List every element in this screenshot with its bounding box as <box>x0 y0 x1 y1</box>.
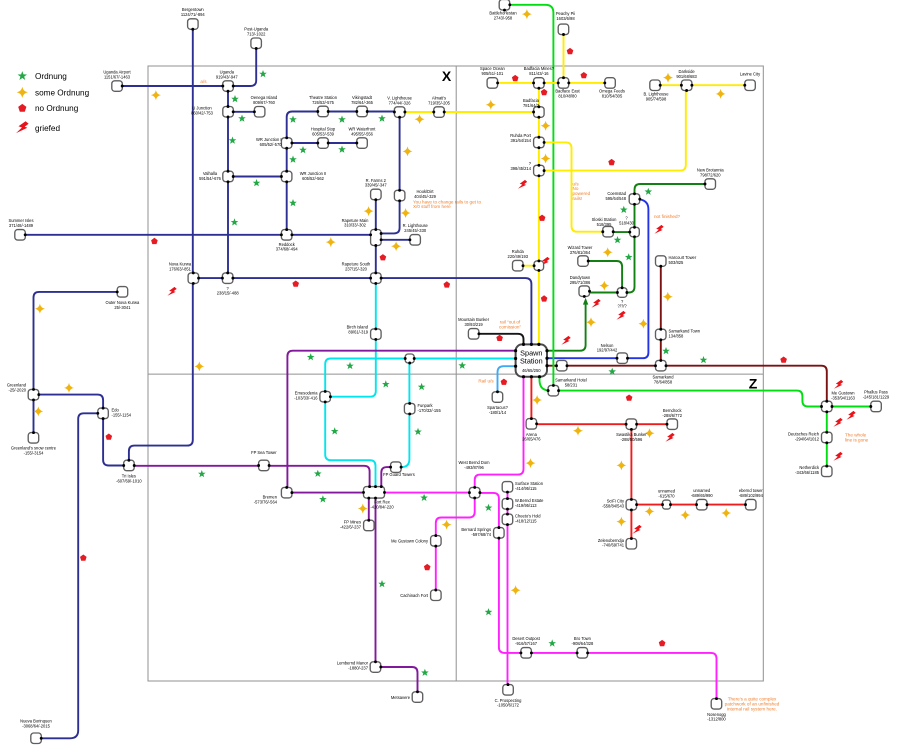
station WR Junction I <box>281 138 292 149</box>
svg-text:1603/6/98: 1603/6/98 <box>556 16 575 21</box>
station Samarkand Hotel <box>557 360 568 371</box>
marker: green star 23 <box>420 494 428 501</box>
svg-text:26/65/476: 26/65/476 <box>522 437 541 442</box>
station Bernard Springs <box>494 528 505 539</box>
svg-text:295/71/386: 295/71/386 <box>570 280 591 285</box>
svg-text:398/45/214: 398/45/214 <box>511 166 532 171</box>
wire: navy Bergentown-NovaKurwa-TriIsles line <box>129 30 193 461</box>
station Valhalla <box>223 171 234 182</box>
marker: yellow sparkle 12 <box>358 504 368 514</box>
marker: yellow sparkle 6 <box>326 237 336 247</box>
wire: purple FortRex-LemberndManor vertical <box>375 498 377 661</box>
svg-text:339/45/-347: 339/45/-347 <box>365 183 388 188</box>
station Darkside <box>681 80 692 91</box>
station yellowjct <box>534 261 544 271</box>
svg-text:-607/69/-1010: -607/69/-1010 <box>116 478 142 483</box>
station Greenland's snow centre <box>28 433 39 444</box>
marker: yellow sparkle 21 <box>586 317 596 327</box>
marker: red lightning 7 <box>561 336 570 345</box>
svg-text:919/43/-947: 919/43/-947 <box>216 74 239 79</box>
marker: green star 11 <box>253 179 261 186</box>
wire: darkgreen Spawn-Dandytown arrow line <box>547 303 586 351</box>
svg-text:901/68/683: 901/68/683 <box>676 74 697 79</box>
wire: darkgreen Sloski-518430 link <box>614 231 629 233</box>
svg-text:-103/33/-416: -103/33/-416 <box>294 396 318 401</box>
marker: green star 17 <box>382 380 390 387</box>
station Tri Isles <box>124 460 135 471</box>
svg-text:860/42/-753: 860/42/-753 <box>191 110 214 115</box>
station Deutsches Reich <box>822 432 833 443</box>
station Battlehorlestan <box>499 0 510 10</box>
station Vikingstadt <box>357 106 368 117</box>
station West Bernd Dom <box>469 487 480 498</box>
station Surface Station <box>502 482 513 493</box>
svg-text:-294/64/1012: -294/64/1012 <box>795 436 820 441</box>
wire: yellow 398-Darkside curve <box>544 91 686 171</box>
wire: black MountainBunker-Spawn line <box>479 334 523 345</box>
marker: yellow sparkle 7 <box>391 241 401 251</box>
svg-text:518/395: 518/395 <box>597 222 613 227</box>
svg-text:-689/102/994: -689/102/994 <box>739 493 764 498</box>
marker: yellow sparkle 18 <box>603 247 613 257</box>
wire: navy Edo-TriIsles curve <box>103 419 123 466</box>
svg-text:X: X <box>442 68 452 84</box>
wire: maroon Spawn-Samarkand-MeGustown line <box>547 366 827 402</box>
svg-text:30/93/219: 30/93/219 <box>464 322 483 327</box>
wire: darkgreen NewBrotannia-Coemstad curve <box>635 184 705 194</box>
station qqq <box>617 288 627 298</box>
marker: yellow sparkle 24 <box>663 73 673 83</box>
wire: yellow PeachyPii-BadfaceEast vertical <box>563 35 565 78</box>
marker: red lightning 9 <box>846 411 855 420</box>
marker: green star 25 <box>608 368 616 375</box>
svg-text:a/s: a/s <box>200 79 207 84</box>
wire: maroon HarcourtTower-Samarkand vertical <box>660 267 662 361</box>
station WR Junction II <box>281 171 292 182</box>
marker: yellow sparkle 16 <box>541 121 551 131</box>
svg-text:905/74/598: 905/74/598 <box>646 97 667 102</box>
svg-text:-422/6/-237: -422/6/-237 <box>340 524 362 529</box>
svg-text:-180/1/14: -180/1/14 <box>489 410 507 415</box>
station Badfacia Mines? <box>534 78 545 89</box>
station Ruhda Port <box>534 137 545 148</box>
marker: red lightning 11 <box>833 452 842 461</box>
station Cheeto's Hold <box>502 514 513 525</box>
marker: red lightning 2 <box>518 180 527 189</box>
marker: yellow sparkle 33 <box>511 585 521 595</box>
marker: green star 10 <box>289 156 297 163</box>
svg-text:-419/95/113: -419/95/113 <box>515 503 537 508</box>
marker: yellow sparkle 27 <box>645 428 655 438</box>
marker: green star 35 <box>378 580 386 587</box>
svg-text:Rail u/s: Rail u/s <box>478 378 494 383</box>
marker: red pentagon 16 <box>626 395 633 401</box>
svg-text:89/61/-319: 89/61/-319 <box>348 330 368 335</box>
marker: red lightning 6 <box>616 311 625 320</box>
wire: magenta FortRex-WestBerndDom link <box>385 492 469 494</box>
svg-text:371/48/-1489: 371/48/-1489 <box>9 223 34 228</box>
wire: red Spawn-Arena vertical <box>530 377 532 418</box>
station U Junction <box>223 107 234 118</box>
marker: green star 4 <box>289 116 297 123</box>
svg-text:-418/12/115: -418/12/115 <box>515 518 537 523</box>
marker: red pentagon 12 <box>567 48 574 54</box>
legend: some Ordnung yellow sparkle <box>17 87 28 98</box>
svg-text:810/48/80: 810/48/80 <box>558 94 577 99</box>
svg-text:25/-3041: 25/-3041 <box>114 305 131 310</box>
wire: navy WRJunctionI-TheatreStation row <box>287 112 394 138</box>
legend: no Ordnung red pentagon <box>18 104 26 112</box>
marker: red pentagon 4 <box>444 281 451 287</box>
marker: yellow sparkle 26 <box>573 426 583 436</box>
marker: red pentagon 18 <box>424 564 431 570</box>
station B. Lighthouse <box>650 80 661 91</box>
wire: red Arena-Swastika-Berndrock horizontal <box>537 423 667 425</box>
svg-text:-155/-3154: -155/-3154 <box>24 450 45 455</box>
svg-text:-155/-1154: -155/-1154 <box>112 413 132 418</box>
svg-text:245/45/-330: 245/45/-330 <box>404 228 427 233</box>
wire: darkgreen junction-Dandytown link <box>590 292 617 294</box>
svg-text:griefed: griefed <box>35 124 60 133</box>
wire: cyan Emesodenia-FortRex line <box>325 402 375 487</box>
wire: navy UJunction-OenegaIsland link <box>233 111 254 113</box>
station Uganda Airport <box>112 81 123 92</box>
wire: magenta WestBerndDom-MeGustownColony-CachinachFort line <box>436 498 475 590</box>
svg-text:-689/65/990: -689/65/990 <box>691 493 714 498</box>
marker: yellow sparkle 31 <box>721 508 731 518</box>
wire: red SciFiCity row <box>637 504 745 506</box>
wire: navy WRJunctionI-II vertical <box>286 149 288 172</box>
svg-text:192/97/442: 192/97/442 <box>597 348 618 353</box>
marker: red pentagon 13 <box>581 72 588 78</box>
station Summer Isles <box>15 230 25 241</box>
marker: green star 1 <box>259 70 267 77</box>
marker: green star 8 <box>299 146 307 153</box>
station FP Mines <box>364 520 375 531</box>
marker: red lightning 5 <box>591 299 600 308</box>
station Netherdick <box>822 466 833 477</box>
marker: green star 34 <box>548 639 556 646</box>
marker: green star 24 <box>458 362 466 369</box>
svg-text:-3068/64/-2015: -3068/64/-2015 <box>22 723 50 728</box>
station Hospital Stop <box>318 138 329 149</box>
station Post-Uganda <box>251 38 262 49</box>
svg-text:810/54/305: 810/54/305 <box>602 94 623 99</box>
station Hook/Dirt <box>394 190 405 201</box>
svg-text:-916/57/167: -916/57/167 <box>515 641 538 646</box>
wire: yellow BadfaciaMines-Spawn vertical <box>538 88 540 344</box>
station FP Sea Tower <box>259 460 270 471</box>
marker: yellow sparkle 8 <box>35 304 45 314</box>
svg-text:Metsavere: Metsavere <box>391 695 411 700</box>
wire: red SciFiCity-Zelenoberndja vertical <box>630 510 632 538</box>
svg-text:-25/-2020: -25/-2020 <box>8 387 26 392</box>
svg-text:781/64/3: 781/64/3 <box>523 103 540 108</box>
station Dandytown <box>579 286 590 297</box>
marker: green star 33 <box>485 608 493 615</box>
marker: red pentagon 19 <box>659 640 666 646</box>
wire: green MeGustown-Netherdick vertical <box>826 412 828 466</box>
svg-text:1124/71/-894: 1124/71/-894 <box>181 12 206 17</box>
marker: red pentagon 10 <box>541 295 548 301</box>
svg-text:-288/50/596: -288/50/596 <box>620 437 643 442</box>
marker: green star 5 <box>338 116 346 123</box>
svg-text:591/54/-676: 591/54/-676 <box>199 176 222 181</box>
wire: lightblue Spawn-Spartacus line <box>498 366 516 391</box>
wire: navy RapetureMain-RapetureSouth vertical <box>375 245 377 272</box>
marker: green star 26 <box>620 206 628 213</box>
svg-text:78/64/858: 78/64/858 <box>654 379 673 384</box>
marker: yellow sparkle 3 <box>403 146 413 156</box>
station q238 <box>222 273 233 284</box>
wire: navy UgandaAirport-Uganda-PostUganda line <box>117 49 256 86</box>
station Mountain Bunker <box>468 329 479 340</box>
svg-text:134/858: 134/858 <box>669 333 685 338</box>
svg-text:905/51/-101: 905/51/-101 <box>481 71 504 76</box>
station Desert Outpost <box>521 648 532 659</box>
svg-text:310/33/-302: 310/33/-302 <box>344 223 367 228</box>
svg-text:-493/87/96: -493/87/96 <box>464 465 484 470</box>
wire: green Spawn branch curve <box>540 377 551 391</box>
svg-text:some Ordnung: some Ordnung <box>35 88 90 97</box>
station Nelson <box>617 353 628 364</box>
svg-text:FP Sea Tower: FP Sea Tower <box>251 450 277 455</box>
svg-text:503/825: 503/825 <box>669 260 685 265</box>
svg-text:391/64/154: 391/64/154 <box>511 138 532 143</box>
marker: yellow sparkle 15 <box>486 100 496 110</box>
svg-text:-414/95/115: -414/95/115 <box>515 486 537 491</box>
wire: darkgreen Coemstad-518430-junction line <box>628 205 635 293</box>
wire: purple Spawn-Bremen line <box>287 351 515 488</box>
wire: navy WRJunctionI-Waterfront row <box>292 142 356 144</box>
wire: yellow Ruhda link <box>523 265 533 267</box>
marker: red lightning 8 <box>834 380 843 389</box>
marker: yellow sparkle 4 <box>364 206 374 216</box>
wire: cyan RapetureSouth-BirchIsland-Emesodenia line <box>331 284 376 397</box>
marker: yellow sparkle 34 <box>526 458 536 468</box>
marker: yellow sparkle 13 <box>442 520 452 530</box>
svg-text:line is gone: line is gone <box>845 437 869 442</box>
station Peachy Pii <box>558 24 569 34</box>
station Me Gustown <box>822 401 833 412</box>
svg-text:2743/-958: 2743/-958 <box>494 16 513 21</box>
wire: navy NovaKurwa-RapetureSouth-Spawn horizontal <box>199 278 532 344</box>
svg-text:Ordnung: Ordnung <box>35 72 67 81</box>
svg-text:-558/84/543: -558/84/543 <box>602 504 625 509</box>
svg-text:237/15/-320: 237/15/-320 <box>345 266 368 271</box>
svg-text:-343/66/1185: -343/66/1185 <box>795 470 820 475</box>
marker: red pentagon 8 <box>608 159 615 165</box>
station Zelenoberndja <box>626 539 637 550</box>
station Nosenogg <box>711 699 722 710</box>
station Arena <box>526 419 537 430</box>
marker: red pentagon 2 <box>292 281 299 287</box>
marker: red lightning 13 <box>665 433 674 442</box>
svg-text:FP Guard Towers: FP Guard Towers <box>383 472 415 477</box>
marker: green star 6 <box>378 115 386 122</box>
wire: navy WRJunctionII-Reddock vertical <box>286 182 288 229</box>
wire: navy Uganda-Valhalla vertical <box>227 92 229 273</box>
svg-text:376/81/364: 376/81/364 <box>570 250 591 255</box>
svg-text:-615/670: -615/670 <box>658 494 675 499</box>
svg-text:1151/67/-1463: 1151/67/-1463 <box>104 74 131 79</box>
marker: green star 29 <box>614 236 622 243</box>
marker: red lightning 10 <box>833 418 842 427</box>
station Lembernd Manor <box>370 662 381 673</box>
wire: red Swastika-SciFiCity vertical <box>630 430 632 500</box>
marker: yellow sparkle 19 <box>599 281 609 291</box>
station Funpark <box>404 403 415 414</box>
wire: violet TriIsles-FPSeaTower-FortRex line <box>134 466 369 487</box>
station Nueva Borinquen <box>31 733 42 744</box>
station Omega Feeds <box>605 78 616 89</box>
station SciFi City <box>626 499 637 510</box>
legend: Ordnung green star <box>18 71 27 80</box>
marker: yellow sparkle 20 <box>663 292 673 302</box>
marker: red lightning 4 <box>654 225 663 234</box>
legend: griefed red lightning <box>16 121 29 133</box>
wire: navy HookDirt-RapetureMain curve <box>382 201 400 233</box>
station Rapeture Main <box>371 230 382 246</box>
svg-text:rails!: rails! <box>573 196 583 201</box>
svg-text:-573/76/-564: -573/76/-564 <box>254 500 278 505</box>
marker: yellow sparkle 14 <box>522 9 532 19</box>
marker: yellow sparkle 25 <box>532 395 542 405</box>
wire: navy RapetureMain-RLighthouse link <box>382 239 410 241</box>
station Harcourt Tower <box>656 256 667 266</box>
marker: green star 36 <box>421 669 429 676</box>
marker: yellow sparkle 10 <box>33 406 43 416</box>
svg-text:Cachinach Fort: Cachinach Fort <box>400 593 429 598</box>
station cyanjct <box>405 354 414 363</box>
wire: magenta Spawn-WestBerndDom line <box>475 377 524 487</box>
svg-text:-170/32/-155: -170/32/-155 <box>418 408 442 413</box>
svg-text:Me Gustown Colony: Me Gustown Colony <box>391 539 429 544</box>
wire: green MeGustown-PhallusPass link <box>833 406 871 408</box>
svg-text:Z: Z <box>749 376 758 392</box>
svg-text:605/52/-562: 605/52/-562 <box>302 176 325 181</box>
station V. Lighthouse <box>394 107 405 118</box>
station W.Bernd Estate <box>502 499 513 510</box>
svg-text:-1880/-237: -1880/-237 <box>348 665 369 670</box>
station Bro Town <box>577 648 588 659</box>
marker: green star 19 <box>331 427 339 434</box>
svg-text:809/67/-760: 809/67/-760 <box>253 100 276 105</box>
station Samarkand Town <box>656 329 667 340</box>
svg-text:605/53/-539: 605/53/-539 <box>312 131 335 136</box>
station Spawn Station (main hub) <box>514 343 549 379</box>
marker: red pentagon 6 <box>80 555 87 561</box>
marker: yellow sparkle 30 <box>680 510 690 520</box>
wire: cyan Emesodenia-Spawn main line <box>325 359 515 392</box>
station Birch Island <box>371 329 382 340</box>
marker: green star 20 <box>414 428 422 435</box>
station Bremen <box>281 487 292 498</box>
svg-text:Station: Station <box>520 357 543 366</box>
wire: yellow BLighthouse-Darkside-LavineCity row <box>661 84 745 86</box>
station Sloski Station <box>603 226 614 237</box>
station R. Farms 2 <box>371 189 382 200</box>
wire: purple LemberndManor-Metsavere curve <box>381 667 418 692</box>
marker: yellow sparkle 22 <box>638 319 648 329</box>
marker: red pentagon 7 <box>541 89 548 95</box>
wire: navy WRJunctionII-Valhalla link <box>234 176 282 178</box>
station Swastika Bunker <box>626 419 637 430</box>
wire: green Battlehorlestan main vertical <box>510 5 553 385</box>
marker: green star 31 <box>700 356 708 363</box>
station Rapeture South <box>371 273 382 284</box>
station Nova Kurwa <box>188 273 199 284</box>
svg-text:-740/69/741: -740/69/741 <box>602 543 625 548</box>
station unnamed615 <box>663 500 671 509</box>
marker: red pentagon 5 <box>106 434 113 440</box>
wire: navy Edo-NuevaBorinquen line <box>42 413 98 738</box>
wire: yellow RuhdaPort-Sloski curve <box>544 142 602 231</box>
svg-text:internal rail system here.: internal rail system here. <box>727 706 777 711</box>
wire: navy Greenland-SnowCentre vertical <box>33 400 35 432</box>
station Me Gustown Colony <box>431 536 442 547</box>
svg-text:595/64/548: 595/64/548 <box>606 196 627 201</box>
wire: purple Bremen-FortRex link <box>292 492 364 494</box>
marker: red pentagon 3 <box>380 254 387 260</box>
marker: green star 22 <box>319 495 327 502</box>
wire: navy RFarms2-RapetureMain vertical <box>375 200 377 230</box>
wire: navy VLighthouse-HookDirt vertical <box>399 118 401 191</box>
marker: green star 7 <box>229 137 237 144</box>
station Emesodenia <box>320 391 331 402</box>
wire: magenta WestBerndDom-BernardSprings-DesertOutpost-Nosenogg line <box>480 493 716 699</box>
svg-text:713/-1022: 713/-1022 <box>247 32 266 37</box>
svg-text:719/35/-205: 719/35/-205 <box>428 100 451 105</box>
station Outer Nova Kurwa <box>117 287 128 298</box>
svg-text:176/63/-851: 176/63/-851 <box>169 266 192 271</box>
station Lavine City <box>745 80 756 91</box>
station greenjct <box>548 385 559 396</box>
svg-text:811/43/-16: 811/43/-16 <box>529 71 549 76</box>
station FP Guard Towers <box>391 462 402 473</box>
svg-text:726/53/-575: 726/53/-575 <box>312 100 335 105</box>
marker: red pentagon 15 <box>501 379 508 385</box>
station Reddock <box>281 230 292 241</box>
X axis vertical line <box>455 66 457 681</box>
svg-text:-1312/800: -1312/800 <box>707 717 726 722</box>
station Cachinach Fort <box>431 590 442 601</box>
wire: purple FortRex-FPMines vertical <box>368 498 370 520</box>
station Uganda <box>223 81 234 92</box>
marker: red pentagon 11 <box>512 75 519 81</box>
svg-text:495/55/-556: 495/55/-556 <box>351 131 374 136</box>
marker: green star 18 <box>418 383 426 390</box>
marker: yellow sparkle 5 <box>401 208 411 218</box>
marker: red pentagon 1 <box>151 238 158 244</box>
map border rectangle <box>148 66 763 681</box>
marker: green star 21 <box>314 470 322 477</box>
marker: green star 14 <box>198 470 206 477</box>
svg-text:X/0 stuff from here: X/0 stuff from here <box>413 204 451 209</box>
station C. Prospecting <box>503 685 514 696</box>
station Wizard Tower <box>578 256 589 266</box>
marker: yellow sparkle 9 <box>64 383 74 393</box>
station q398 <box>534 165 545 176</box>
wire: darkgreen WizardTower-junction curve <box>589 261 623 287</box>
marker: green star 16 <box>346 362 354 369</box>
marker: green star 27 <box>645 188 653 195</box>
station Greenland <box>28 389 39 400</box>
arrowhead on darkgreen Spawn-Dandytown line <box>583 298 588 305</box>
station WR Waterfront <box>357 138 368 149</box>
station unnamed689 <box>697 499 708 510</box>
wire: magenta SurfaceStation-CProspecting vertical <box>507 492 509 684</box>
